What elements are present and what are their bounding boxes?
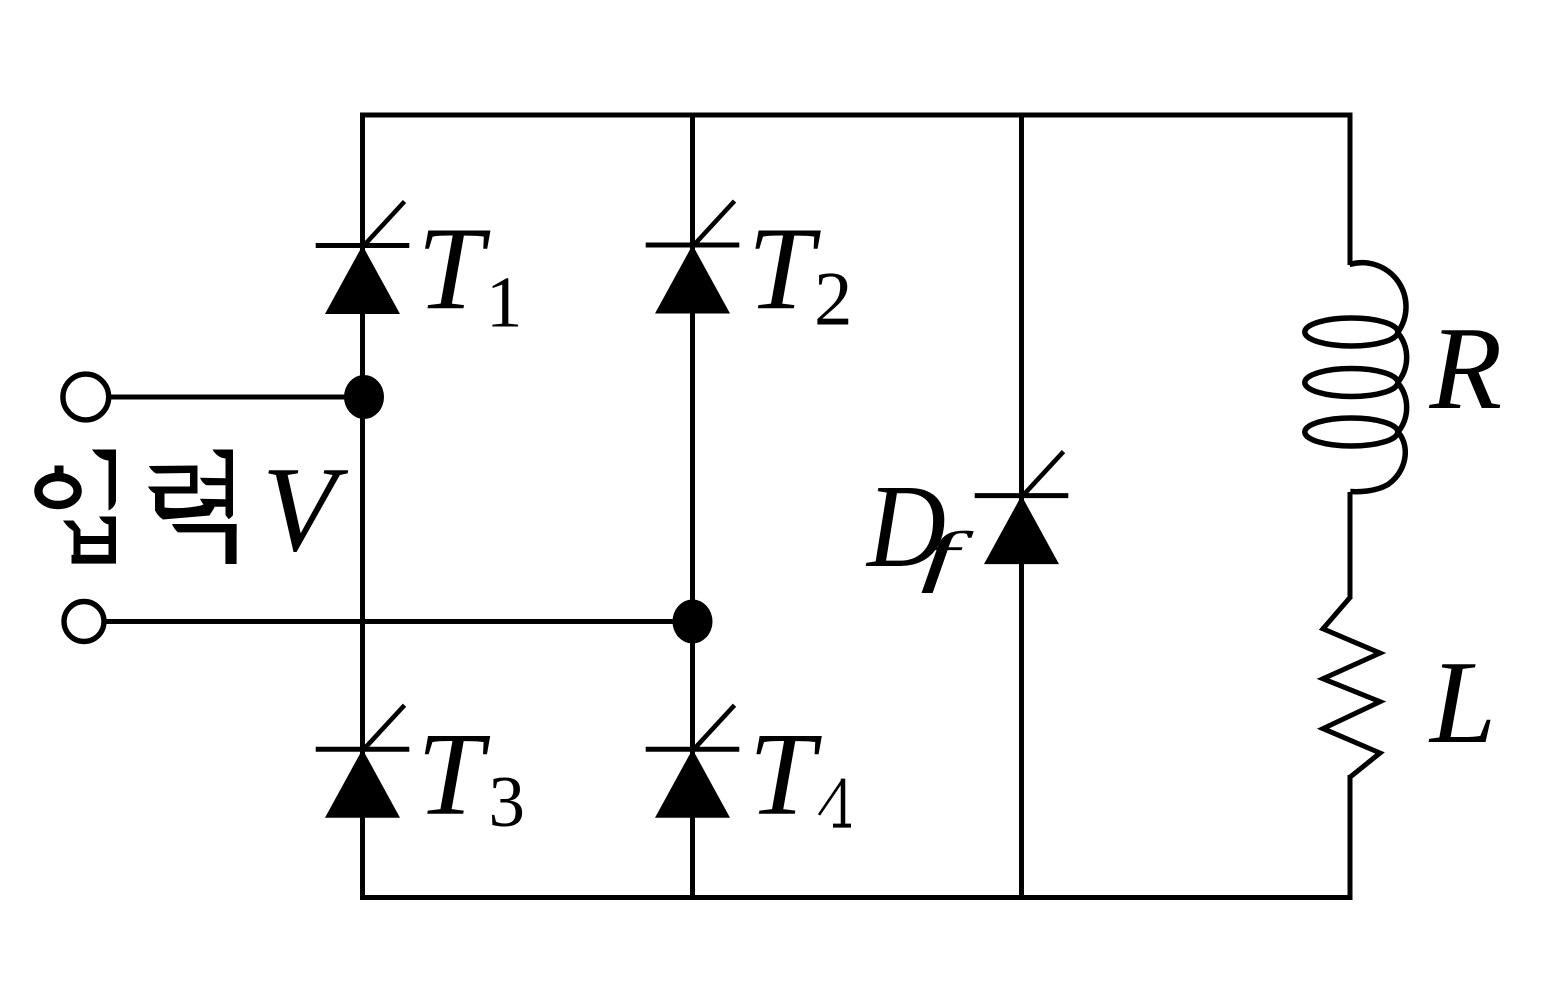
- thyristor T4: [646, 705, 740, 818]
- wire right load branch upper segment: [1348, 113, 1353, 266]
- label Df: [865, 460, 974, 594]
- thyristor T1: [316, 202, 410, 315]
- thyristor T2: [646, 201, 740, 314]
- node A junction dot: [344, 375, 384, 419]
- label 입 (Korean "input" syllable 1, hand-drawn): [38, 450, 116, 564]
- svg-text:2: 2: [814, 255, 853, 341]
- svg-text:T: T: [417, 203, 491, 335]
- label T3: [417, 708, 525, 842]
- node B junction dot: [673, 600, 713, 644]
- svg-text:L: L: [1428, 636, 1496, 768]
- label T2: [748, 203, 853, 342]
- svg-text:R: R: [1429, 302, 1503, 434]
- input terminal lower (circle): [64, 602, 104, 642]
- wire freewheeling branch (Df): [1019, 113, 1024, 901]
- label 력 (Korean "input" syllable 2, hand-drawn): [148, 450, 237, 565]
- wire top bus: [360, 113, 1353, 118]
- wire left bridge leg (T1/T3 branch): [360, 113, 365, 901]
- svg-text:V: V: [262, 442, 349, 577]
- svg-text:T: T: [417, 708, 491, 840]
- label T4 (subscript 4 drawn as strokes): [749, 708, 851, 840]
- input terminal upper (circle): [63, 374, 109, 420]
- svg-text:1: 1: [486, 262, 523, 343]
- svg-text:T: T: [749, 708, 823, 840]
- wire bottom bus: [360, 895, 1353, 900]
- svg-text:3: 3: [489, 761, 526, 842]
- wire second bridge leg (T2/T4 branch): [690, 113, 695, 901]
- wire from upper input terminal to node A: [108, 395, 364, 400]
- freewheeling thyristor Df: [975, 452, 1069, 564]
- resistor zigzag (load, labeled L): [1323, 598, 1380, 778]
- wire right load branch lower segment: [1348, 775, 1353, 900]
- thyristor T3: [316, 705, 410, 818]
- wire right load branch middle segment: [1348, 492, 1353, 599]
- inductor coil (load, labeled R): [1305, 263, 1407, 492]
- label T1: [417, 203, 522, 343]
- wire from lower input terminal to node B: [104, 619, 693, 624]
- svg-text:T: T: [748, 203, 822, 335]
